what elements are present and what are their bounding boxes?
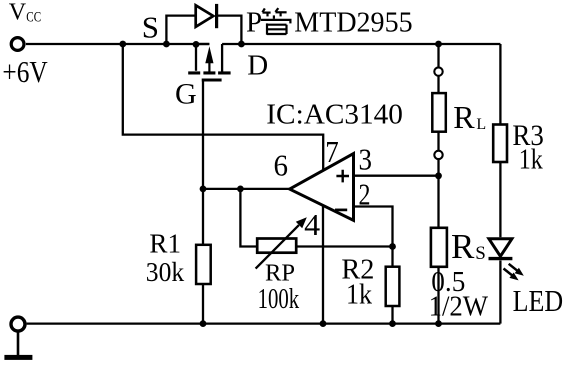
wire Rs bottom lead	[437, 267, 439, 324]
wire pin3 to Rs top	[354, 175, 439, 177]
ground symbol	[4, 331, 32, 360]
wire RL lead	[437, 76, 439, 93]
svg-text:LED: LED	[513, 283, 564, 318]
plus input mark	[336, 170, 349, 183]
terminal ground input	[11, 317, 25, 331]
label Vcc	[9, 0, 41, 26]
wire ground rail	[27, 322, 501, 324]
node R2 / ground rail	[389, 320, 396, 327]
LED light arrow 2	[504, 269, 519, 281]
label Rs	[451, 227, 486, 266]
wire RP left branch	[240, 189, 257, 247]
svg-text:R: R	[453, 99, 475, 135]
channel bar right	[218, 71, 231, 74]
svg-text:V: V	[9, 0, 27, 26]
node Rs / ground rail	[435, 320, 442, 327]
svg-text:IC:AC3140: IC:AC3140	[266, 98, 403, 130]
wire top rail left	[26, 43, 209, 45]
svg-text:7: 7	[325, 134, 339, 169]
node source lead	[193, 41, 200, 48]
source lead	[195, 44, 197, 71]
node pin2 / RP / R2	[389, 243, 396, 250]
node pin3 / RL / Rs	[435, 172, 442, 179]
wire supply riser to op-amp pin7	[123, 44, 323, 171]
svg-text:L: L	[476, 116, 486, 133]
svg-text:D: D	[247, 49, 268, 81]
wire Rs top lead	[437, 176, 439, 228]
wire pin2 to R2 top	[354, 207, 393, 247]
substrate arrow	[208, 58, 210, 72]
diode VD body-diode across MOSFET	[196, 4, 217, 28]
LED light arrow 1	[509, 264, 524, 276]
wire pin4 lead to ground rail	[322, 205, 324, 323]
wire top rail right	[222, 43, 500, 45]
wire R3 to LED	[499, 162, 501, 237]
wire RL lower lead	[437, 132, 439, 151]
transistor Q1 P-MOSFET MTD2955	[188, 44, 230, 82]
svg-text:P: P	[246, 6, 262, 38]
wire R1 bottom lead	[202, 284, 204, 324]
svg-text:3: 3	[359, 142, 373, 177]
node output / RP branch	[237, 186, 244, 193]
node gate / output / R1	[200, 186, 207, 193]
node R1 / ground rail	[200, 320, 207, 327]
node S / diode branch	[163, 41, 170, 48]
svg-text:MTD2955: MTD2955	[294, 6, 412, 38]
wire gate lead	[202, 81, 204, 188]
wire RP to pin2/R2	[296, 245, 392, 247]
op-amp U1 AC3140	[290, 154, 354, 221]
wire LED to ground rail	[499, 261, 501, 324]
resistor R3	[493, 125, 507, 163]
svg-text:R: R	[451, 227, 475, 266]
resistor RL	[432, 93, 446, 132]
wire diode branch left riser	[166, 16, 195, 44]
LED diode	[489, 239, 513, 259]
node top rail / supply riser	[119, 41, 126, 48]
svg-text:CC: CC	[26, 9, 41, 25]
drain lead	[221, 44, 223, 72]
resistor Rs	[431, 228, 447, 267]
channel bar middle	[203, 71, 215, 74]
glyph 管 (drawn)	[261, 8, 292, 35]
node pin4 / ground rail	[320, 320, 327, 327]
wire op-amp output pin6	[203, 188, 290, 190]
svg-text:30k: 30k	[146, 257, 185, 287]
svg-text:100k: 100k	[258, 283, 300, 315]
terminal Vcc input	[11, 38, 24, 51]
wire stub to substrate arrow	[196, 43, 209, 45]
wire R2 bottom lead	[391, 306, 393, 324]
wire RL top lead	[437, 44, 439, 67]
terminal socket lower (RL)	[434, 151, 442, 159]
svg-text:G: G	[175, 78, 197, 111]
wire to node below RL	[437, 159, 439, 176]
svg-text:1k: 1k	[519, 145, 543, 176]
channel bar left	[188, 71, 200, 74]
svg-text:1k: 1k	[346, 279, 372, 310]
minus input mark	[335, 209, 347, 212]
svg-text:+6V: +6V	[2, 55, 47, 89]
node D / diode branch	[238, 41, 245, 48]
label RL	[453, 99, 486, 135]
svg-text:R1: R1	[149, 229, 181, 259]
svg-text:S: S	[142, 10, 159, 45]
wire R3 branch from top rail	[499, 44, 501, 125]
potentiometer RP	[256, 217, 307, 268]
svg-text:1/2W: 1/2W	[429, 291, 489, 323]
node top rail / RL branch	[435, 41, 442, 48]
wire R1 top lead	[202, 189, 204, 245]
terminal socket upper (RL)	[434, 67, 442, 75]
svg-text:6: 6	[274, 148, 289, 183]
wire R2 top lead	[391, 247, 393, 267]
wire diode branch right riser	[217, 16, 242, 44]
resistor R1	[196, 245, 211, 284]
svg-text:4: 4	[304, 207, 321, 242]
gate bar	[202, 79, 222, 82]
svg-text:S: S	[475, 243, 486, 264]
resistor R2	[386, 267, 400, 306]
